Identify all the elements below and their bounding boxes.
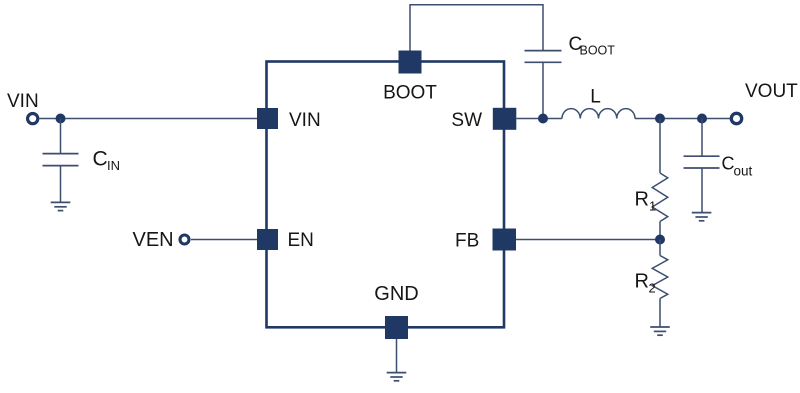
wire BOOT loop [410, 5, 543, 51]
svg-text:BOOT: BOOT [383, 83, 437, 104]
pin FB [493, 229, 517, 251]
inductor L [562, 109, 635, 119]
pin label SW [451, 110, 482, 131]
pin GND [385, 316, 408, 339]
svg-text:GND: GND [374, 283, 418, 305]
pin label VIN [289, 110, 321, 131]
pin SW [493, 108, 517, 130]
svg-text:L: L [590, 87, 601, 108]
label CIN [93, 148, 121, 173]
svg-text:2: 2 [649, 281, 656, 296]
label VIN (input) [7, 91, 39, 112]
svg-text:1: 1 [649, 199, 656, 214]
svg-text:EN: EN [288, 230, 314, 251]
wire VIN rail [40, 118, 258, 120]
capacitor CIN [43, 154, 79, 166]
label COUT [722, 154, 753, 179]
pin label FB [455, 231, 479, 252]
wire COUT top lead [701, 119, 703, 157]
node VIN junction [56, 114, 66, 124]
pin label BOOT [383, 83, 437, 104]
svg-text:IN: IN [107, 158, 120, 173]
svg-text:C: C [93, 148, 108, 171]
label CBOOT [569, 34, 616, 58]
wire CBOOT to SW node [542, 62, 544, 118]
resistor R1 [652, 173, 668, 222]
wire CIN bottom lead [60, 166, 62, 202]
terminal VIN [28, 114, 38, 124]
pin BOOT [399, 51, 422, 74]
capacitor COUT [684, 156, 720, 168]
svg-text:out: out [734, 163, 753, 178]
wire R1 bottom lead [659, 222, 661, 240]
IC body U1 [267, 62, 505, 328]
label VOUT [745, 81, 798, 102]
terminal VEN [180, 235, 189, 244]
label VEN [133, 229, 174, 251]
svg-text:VOUT: VOUT [745, 81, 798, 102]
svg-text:VEN: VEN [133, 229, 174, 251]
wire GND stub [396, 339, 398, 372]
wire SW to inductor [516, 118, 562, 120]
label L [590, 87, 601, 108]
pin label GND [374, 283, 418, 305]
pin EN [257, 229, 278, 250]
svg-text:VIN: VIN [289, 110, 321, 131]
capacitor CBOOT [525, 51, 562, 63]
wire R2 bottom lead [659, 299, 661, 327]
node SW-CBOOT junction [538, 114, 548, 124]
svg-text:R: R [635, 271, 649, 293]
ground (CIN) [51, 202, 71, 210]
wire VEN to EN [191, 239, 257, 241]
svg-text:VIN: VIN [7, 91, 39, 112]
wire CIN top lead [60, 119, 62, 154]
svg-text:FB: FB [455, 231, 479, 252]
wire R2 top lead [659, 240, 661, 256]
svg-text:SW: SW [451, 110, 482, 131]
ground (GND pin) [387, 373, 407, 381]
terminal VOUT [731, 113, 741, 123]
svg-text:R: R [635, 189, 649, 211]
pin VIN [257, 108, 278, 129]
label R2 [635, 271, 656, 296]
wire COUT bottom lead [701, 168, 703, 212]
ground (R2) [650, 327, 670, 335]
wire FB to divider [516, 239, 660, 241]
pin label EN [288, 230, 314, 251]
svg-text:BOOT: BOOT [580, 44, 616, 58]
node FB junction [655, 235, 665, 245]
label R1 [635, 189, 657, 214]
node COUT junction [697, 114, 707, 124]
wire R1 top lead [659, 119, 661, 174]
wire inductor to VOUT [635, 118, 730, 120]
resistor R2 [652, 256, 668, 299]
ground (COUT) [692, 213, 712, 221]
node R1 junction [655, 114, 665, 124]
